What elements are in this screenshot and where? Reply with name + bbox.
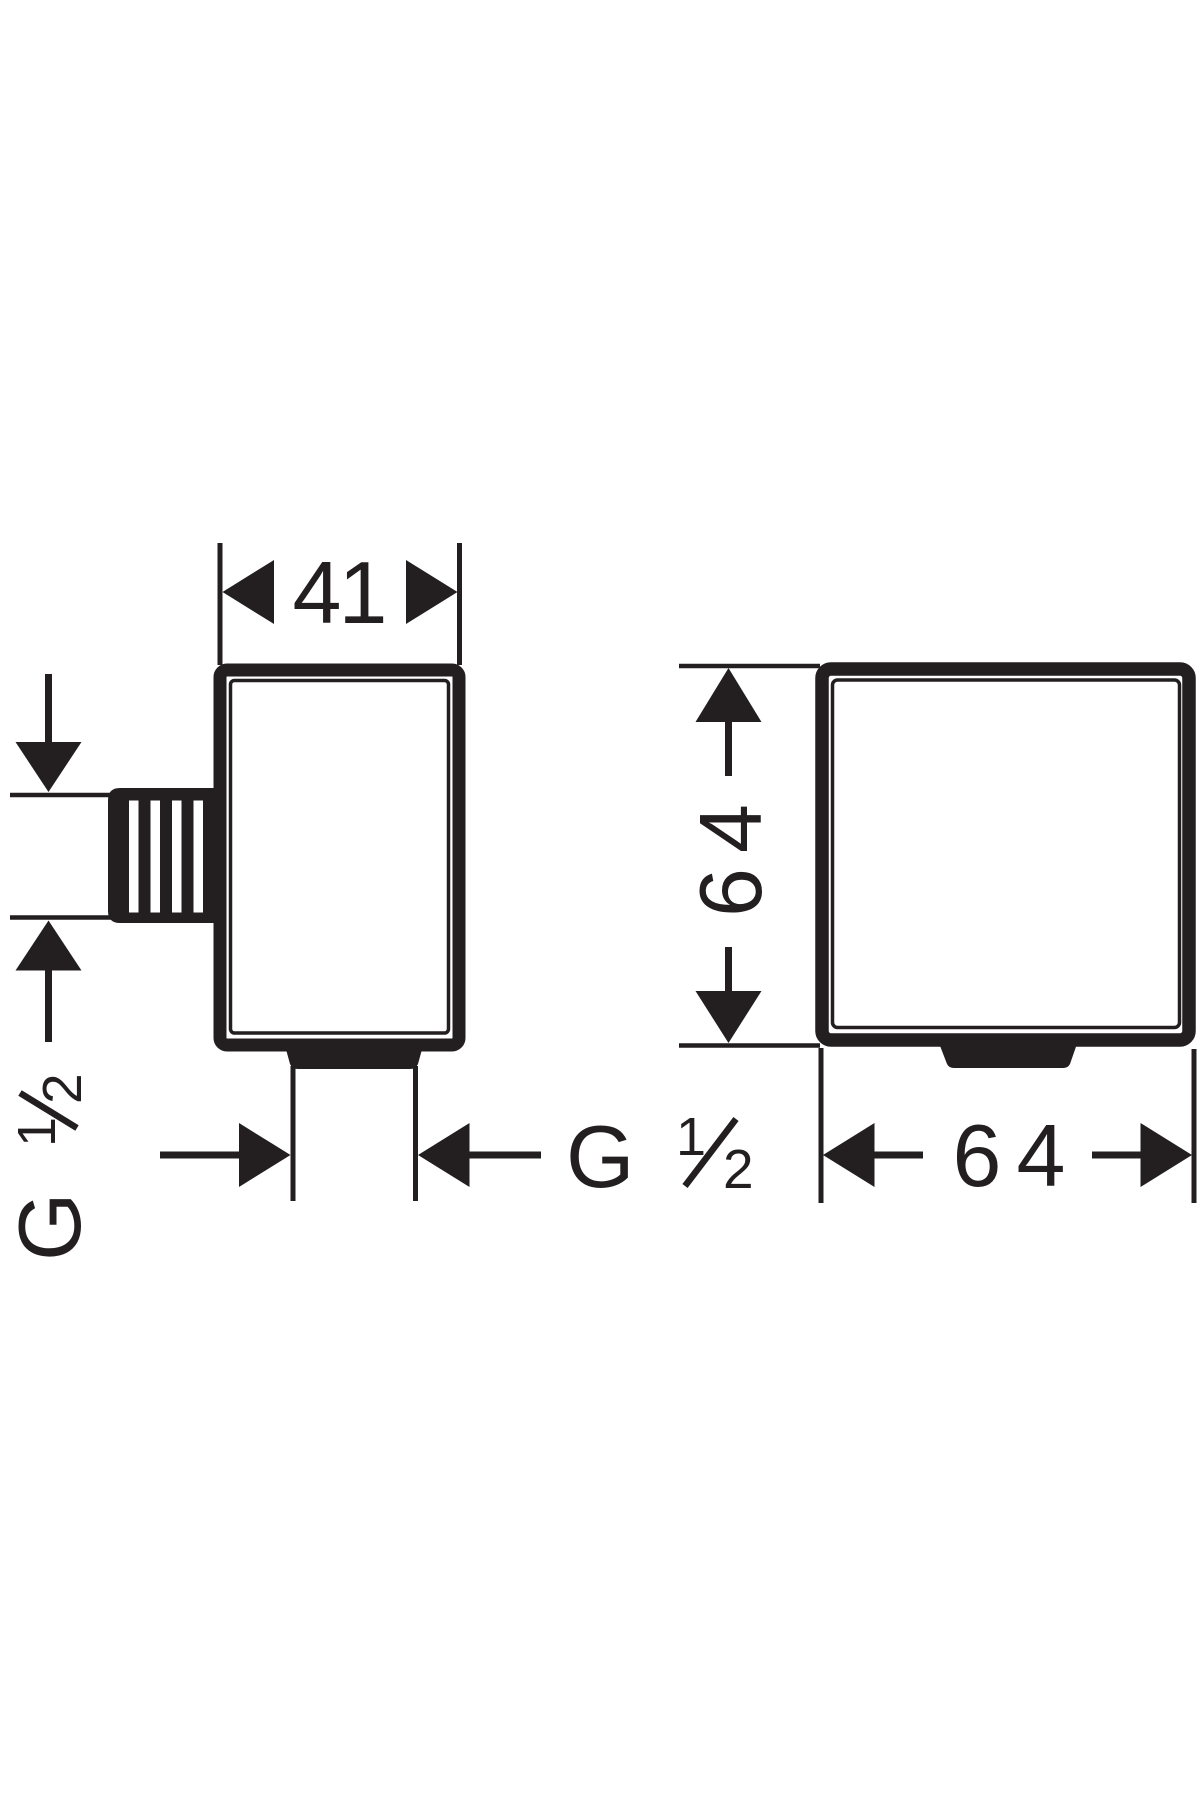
svg-text:2: 2 (723, 1138, 754, 1200)
dim 64 vertical: lower stem (725, 947, 732, 993)
dim 41: right extension line (457, 543, 462, 665)
dim 64 vertical: upper stem (725, 721, 732, 776)
thread dim: top extension line (10, 793, 112, 798)
right view: bottom outlet port (937, 1038, 1079, 1068)
outlet dim: left extension line (291, 1066, 296, 1201)
svg-text:1: 1 (676, 1107, 706, 1167)
thread dim: down arrowhead (16, 742, 82, 792)
svg-text:64: 64 (953, 1106, 1081, 1205)
left view: inner face line (231, 681, 449, 1034)
thread dim: upper stem (45, 674, 52, 743)
svg-text:2: 2 (31, 1073, 93, 1104)
left view: thread slots (129, 801, 203, 913)
dim 64 horizontal: left tail line (872, 1152, 923, 1159)
svg-text:1: 1 (7, 1117, 67, 1147)
dim 64 horizontal: left arrowhead (points left) (823, 1123, 875, 1187)
thread dim: bottom extension line (10, 915, 112, 920)
left view: threaded wall connector (108, 788, 220, 923)
dim 64 horizontal: right tail line (1092, 1152, 1142, 1159)
label G 1/2 (outlet thread) (566, 1107, 754, 1206)
outlet dim: right tail line (467, 1152, 541, 1159)
dim 64 horizontal: right arrowhead (points right) (1141, 1123, 1193, 1187)
right view: inner face line (833, 680, 1180, 1028)
outlet dim: left arrowhead (points right) (239, 1123, 291, 1187)
left view: bottom outlet port (284, 1042, 424, 1069)
right view: square escutcheon outline (front view) (822, 669, 1189, 1040)
dim 41: left arrowhead (223, 560, 275, 624)
outlet dim: right arrowhead (points left) (418, 1123, 470, 1187)
dim 64 vertical: up arrowhead (696, 668, 762, 722)
dim 64 horizontal: left extension line (819, 1048, 824, 1203)
outlet dim: left tail line (160, 1152, 242, 1159)
svg-text:41: 41 (293, 543, 385, 642)
thread dim: lower stem (45, 970, 52, 1042)
dim 64 vertical: down arrowhead (696, 991, 762, 1043)
rotated label G 1/2 (wall thread) (0, 1073, 99, 1261)
dim 41: left extension line (218, 543, 223, 665)
svg-text:G: G (566, 1107, 634, 1206)
dim 64 horizontal: right extension line (1192, 1049, 1197, 1203)
svg-text:64: 64 (681, 789, 780, 917)
dim 41: right arrowhead (406, 560, 458, 624)
thread dim: up arrowhead (16, 921, 82, 971)
dim 64 vertical: top extension line (679, 664, 820, 669)
svg-text:G: G (0, 1193, 99, 1261)
dim 64 vertical: bottom extension line (679, 1043, 820, 1048)
left view: body outline (side view escutcheon) (220, 670, 459, 1045)
outlet dim: right extension line (413, 1066, 418, 1201)
